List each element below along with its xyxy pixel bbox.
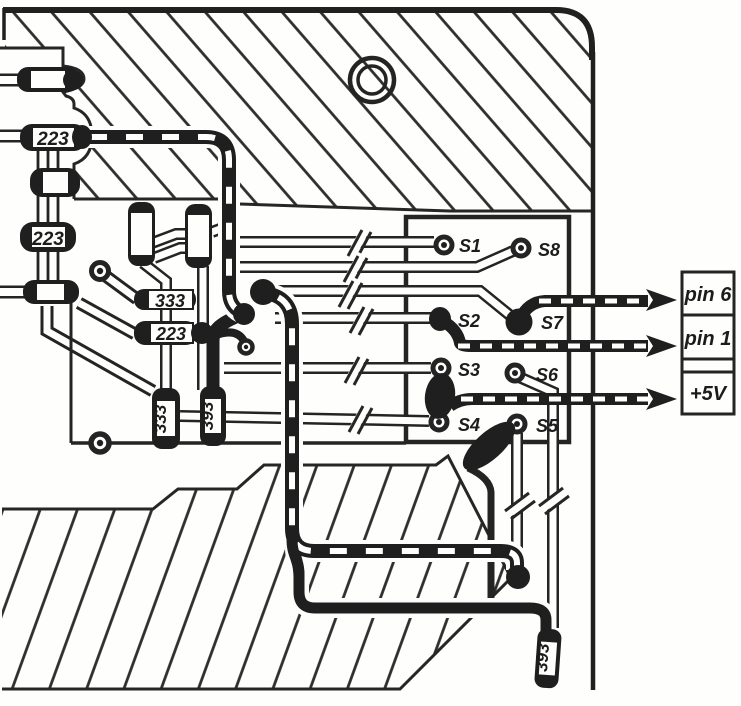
- svg-text:+5V: +5V: [690, 383, 728, 405]
- dashed thick trace 2 vertical middle: [265, 293, 517, 570]
- svg-text:S8: S8: [538, 240, 560, 260]
- svg-text:S5: S5: [536, 416, 559, 436]
- svg-text:S2: S2: [458, 311, 480, 331]
- wire cylinder3 to resistor 223 C4: [79, 303, 135, 334]
- svg-text:S6: S6: [536, 365, 559, 385]
- wire lead cylinder1 left: [0, 74, 20, 87]
- board outline top edge: [3, 10, 592, 60]
- board outline right edge: [591, 52, 596, 690]
- pad P1: [92, 263, 109, 280]
- pad P2 hook: [240, 341, 253, 354]
- resistor 393 bottom: [531, 628, 562, 689]
- board outline left stub: [2, 8, 6, 40]
- arrowhead +5V: [646, 388, 677, 410]
- dashed thick trace 1 from 223 C1: [86, 137, 241, 312]
- wire thick solid bottom trace halo: [295, 548, 546, 632]
- pad S7 soldered blob: [506, 309, 533, 336]
- pad S6: [507, 365, 523, 381]
- wire lead 223 C1 left: [0, 130, 22, 143]
- cut mark S6 trace: [539, 488, 569, 514]
- wire medium vertical from blob S45: [468, 468, 491, 603]
- wire capacitor V2 to trace corner: [212, 226, 228, 232]
- wire capacitor V2 to resistor 393 vertical: [197, 266, 209, 390]
- svg-text:333: 333: [155, 291, 185, 311]
- dashed thick trace 2 halo: [265, 293, 517, 570]
- svg-text:S4: S4: [458, 415, 480, 435]
- wire leads 223 C1 to cylinder2: [38, 151, 58, 170]
- wire lead x71 down to pad P3: [70, 303, 73, 443]
- IC footprint box S1-S8: [406, 217, 569, 442]
- svg-text:S7: S7: [541, 313, 564, 333]
- capacitor 223 C3: [20, 222, 76, 252]
- wire trace to S1: [240, 236, 434, 248]
- node blob end of trace1: [233, 303, 255, 325]
- spacer box: [682, 359, 734, 372]
- wire trace to S4: [180, 416, 429, 421]
- capacitor cylinder3: [23, 280, 79, 304]
- svg-text:pin 6: pin 6: [684, 284, 733, 306]
- +5V box: [682, 372, 734, 414]
- node blob end of trace2 at S5: [506, 565, 530, 589]
- wire capacitor V1 to V2 lower: [154, 248, 188, 258]
- wire capacitor V1 to resistor 333: [143, 263, 166, 292]
- pad P3: [91, 434, 109, 452]
- resistor 333 vertical: [151, 388, 180, 449]
- capacitor 223 C1: [20, 124, 92, 151]
- resistor 223 C4 horizontal: [134, 321, 213, 345]
- wire resistor 333 to 223 C4: [160, 308, 172, 324]
- resistor 333 horizontal: [134, 289, 196, 311]
- wire lead cylinder3 left: [0, 286, 25, 299]
- hatch boundary strokes bottom: [2, 456, 511, 689]
- cut mark S2 trace: [350, 305, 373, 335]
- arrowhead pin 6: [646, 289, 677, 311]
- wire hook to pad P2: [214, 332, 244, 341]
- capacitor cylinder2: [30, 168, 80, 197]
- wire trace to S8: [240, 251, 513, 267]
- wire leads cylinder2 to 223 C3: [38, 195, 58, 224]
- pad S4: [431, 414, 447, 430]
- pad S8: [513, 240, 529, 256]
- svg-text:223: 223: [36, 129, 69, 150]
- svg-text:393: 393: [198, 401, 217, 430]
- pad S2 soldered blob: [429, 307, 451, 331]
- svg-text:223: 223: [155, 324, 186, 344]
- wire trace to S3: [224, 362, 431, 374]
- wire trace to S7: [275, 291, 512, 317]
- cut mark S7 trace: [339, 279, 362, 309]
- wire pad P3 horizontal: [71, 441, 406, 445]
- svg-text:S3: S3: [458, 360, 480, 380]
- svg-text:333: 333: [151, 404, 170, 433]
- wire 223 C4 to resistor 333 vertical: [160, 343, 172, 392]
- wire trace S5 down: [511, 433, 523, 566]
- capacitor V2 vertical: [185, 204, 212, 268]
- pin 1 box: [682, 315, 734, 359]
- cut mark S8 trace: [344, 254, 367, 284]
- svg-text:pin 1: pin 1: [684, 328, 732, 350]
- svg-text:393: 393: [532, 642, 553, 672]
- pin 6 box: [682, 272, 734, 315]
- wire trace to S2: [275, 312, 432, 324]
- wire capacitor V1 to V2 upper: [152, 234, 188, 243]
- svg-text:S1: S1: [459, 236, 481, 256]
- cut mark S5 trace: [505, 493, 535, 519]
- resistor 393 vertical: [198, 386, 226, 446]
- svg-text:223: 223: [31, 229, 64, 250]
- ground-plane hatch bottom region: [2, 456, 511, 689]
- dashed arrow trace to +5V: [450, 399, 648, 406]
- wire junction patch trace2 to solid trace: [292, 540, 299, 578]
- dashed arrow trace to pin 6: [520, 301, 648, 319]
- dashed arrow trace to pin 1: [443, 321, 648, 346]
- wire pad P1 to resistor 333: [103, 274, 137, 299]
- wire trace S6 down to 393: [519, 377, 553, 628]
- solder blob S3-S4: [422, 371, 458, 421]
- mounting hole: [350, 58, 394, 102]
- cut mark S4 trace: [349, 404, 372, 434]
- cut mark S1 trace: [348, 228, 371, 258]
- arrowhead pin 1: [646, 335, 677, 357]
- hatch boundary strokes top: [0, 48, 594, 211]
- wire leads 223 C3 to cylinder3: [38, 250, 58, 282]
- wire thick solid from blob to resistor 393 vertical: [213, 314, 243, 390]
- pad S5: [509, 416, 525, 432]
- cut mark S3 trace: [345, 355, 368, 385]
- capacitor cylinder1: [17, 67, 83, 92]
- pad S3: [433, 360, 449, 376]
- pad S1: [436, 237, 452, 253]
- wire cylinder3 to resistor 333 vertical: [47, 306, 153, 391]
- solder blob below S5: [455, 414, 522, 478]
- node blob start of trace2: [250, 279, 276, 305]
- wire thick solid bottom trace to 393 bottom: [295, 548, 546, 632]
- ground-plane hatch top region: [5, 12, 594, 211]
- capacitor V1 vertical: [128, 202, 155, 266]
